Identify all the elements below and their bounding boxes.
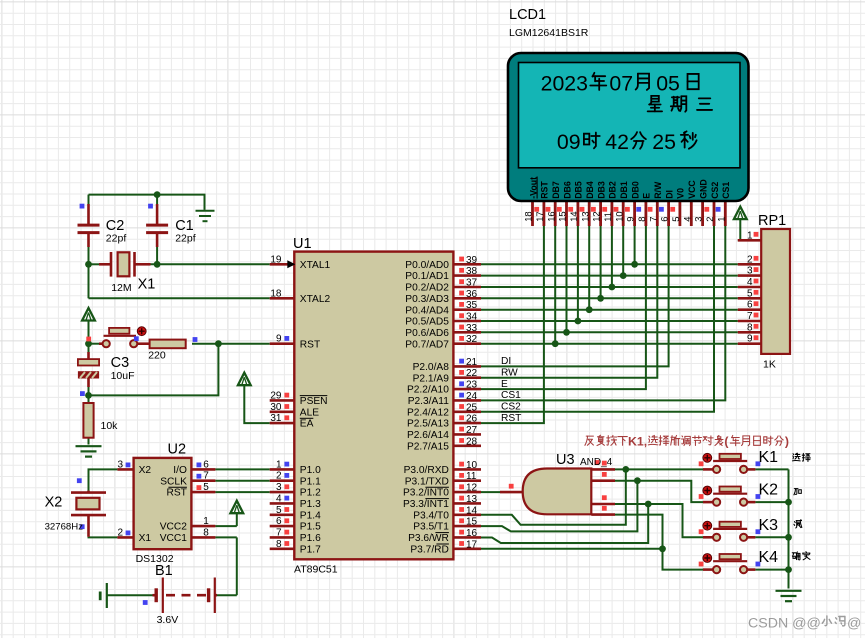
- svg-text:DB7: DB7: [551, 181, 561, 199]
- svg-text:6: 6: [203, 459, 209, 470]
- svg-text:P1.3: P1.3: [300, 499, 321, 510]
- svg-text:U3: U3: [556, 452, 575, 468]
- svg-text:P2.7/A15: P2.7/A15: [407, 441, 449, 452]
- svg-text:K1,: K1,: [628, 434, 647, 448]
- svg-text:17: 17: [534, 211, 545, 221]
- svg-text:7: 7: [276, 527, 282, 538]
- svg-text:9: 9: [747, 334, 753, 345]
- svg-text:25: 25: [652, 130, 676, 154]
- svg-text:2023: 2023: [541, 72, 588, 96]
- svg-text:P1.4: P1.4: [300, 510, 321, 521]
- svg-text:8: 8: [747, 322, 753, 333]
- svg-text:VCC: VCC: [687, 180, 697, 199]
- svg-text:23: 23: [466, 380, 478, 391]
- svg-text:P3.1/TXD: P3.1/TXD: [405, 476, 449, 487]
- svg-text:P2.0/A8: P2.0/A8: [413, 362, 450, 373]
- svg-text:29: 29: [270, 390, 282, 401]
- svg-text:9: 9: [625, 217, 636, 222]
- svg-text:42: 42: [605, 130, 629, 154]
- svg-text:P3.5/T1: P3.5/T1: [413, 522, 449, 533]
- svg-text:8: 8: [276, 539, 282, 550]
- svg-text:DI: DI: [501, 356, 511, 367]
- svg-text:DB3: DB3: [596, 181, 606, 199]
- svg-text:XTAL1: XTAL1: [300, 260, 331, 271]
- svg-text:12: 12: [591, 211, 602, 221]
- svg-text:K3: K3: [759, 517, 779, 534]
- svg-text:P1.7: P1.7: [300, 544, 321, 555]
- svg-text:P3.6/WR: P3.6/WR: [408, 533, 449, 544]
- svg-text:5: 5: [670, 217, 681, 222]
- svg-text:DB5: DB5: [574, 181, 584, 199]
- svg-text:P0.3/AD3: P0.3/AD3: [405, 294, 449, 305]
- svg-text:RST: RST: [300, 339, 320, 350]
- svg-text:22pf: 22pf: [175, 233, 196, 245]
- svg-text:P0.2/AD2: P0.2/AD2: [405, 283, 449, 294]
- svg-text:RW: RW: [501, 368, 518, 379]
- svg-text:RST: RST: [167, 488, 187, 499]
- svg-text:16: 16: [545, 211, 556, 221]
- svg-text:DB4: DB4: [585, 181, 595, 199]
- svg-text:10: 10: [613, 211, 624, 221]
- svg-text:19: 19: [270, 254, 282, 265]
- svg-text:4: 4: [747, 277, 753, 288]
- svg-text:K1: K1: [759, 449, 779, 466]
- svg-text:CS2: CS2: [501, 402, 521, 413]
- svg-text:P3.4/T0: P3.4/T0: [413, 510, 449, 521]
- svg-text:3: 3: [747, 266, 753, 277]
- svg-text:RST: RST: [501, 413, 521, 424]
- svg-text:RP1: RP1: [758, 213, 786, 229]
- svg-text:7: 7: [647, 217, 658, 222]
- svg-text:DI: DI: [664, 190, 674, 199]
- svg-text:18: 18: [523, 211, 534, 221]
- svg-text:21: 21: [466, 357, 478, 368]
- svg-text:1: 1: [715, 217, 726, 222]
- svg-text:X2: X2: [139, 465, 152, 476]
- svg-text:DB0: DB0: [630, 181, 640, 199]
- svg-text:13: 13: [579, 211, 590, 221]
- svg-text:P2.5/A13: P2.5/A13: [407, 419, 449, 430]
- svg-text:P0.0/AD0: P0.0/AD0: [405, 260, 449, 271]
- svg-text:U2: U2: [168, 442, 187, 458]
- svg-text:LGM12641BS1R: LGM12641BS1R: [509, 27, 589, 39]
- svg-text:9: 9: [276, 334, 282, 345]
- svg-text:10k: 10k: [101, 420, 119, 432]
- svg-text:7: 7: [747, 311, 753, 322]
- svg-text:2: 2: [704, 217, 715, 222]
- svg-text:P2.6/A14: P2.6/A14: [407, 430, 449, 441]
- svg-text:15: 15: [557, 211, 568, 221]
- svg-text:10: 10: [466, 460, 478, 471]
- svg-text:34: 34: [466, 312, 478, 323]
- svg-text:35: 35: [466, 300, 478, 311]
- svg-text:ALE: ALE: [300, 407, 319, 418]
- svg-text:25: 25: [466, 402, 478, 413]
- svg-text:36: 36: [466, 289, 478, 300]
- svg-text:1K: 1K: [763, 359, 776, 371]
- svg-text:22pf: 22pf: [106, 233, 127, 245]
- svg-text:16: 16: [466, 528, 478, 539]
- svg-text:P3.2/INT0: P3.2/INT0: [403, 488, 449, 499]
- svg-text:8: 8: [203, 527, 209, 538]
- svg-text:P0.4/AD4: P0.4/AD4: [405, 305, 449, 316]
- svg-text:33: 33: [466, 323, 478, 334]
- svg-text:1: 1: [747, 230, 753, 241]
- svg-text:11: 11: [466, 471, 477, 482]
- svg-text:6: 6: [276, 516, 282, 527]
- svg-text:28: 28: [466, 436, 478, 447]
- svg-text:P2.2/A10: P2.2/A10: [407, 385, 449, 396]
- svg-text:7: 7: [203, 471, 209, 482]
- svg-text:11: 11: [602, 212, 613, 222]
- svg-text:32768Hz: 32768Hz: [45, 522, 84, 533]
- svg-text:12M: 12M: [111, 282, 131, 294]
- svg-text:27: 27: [466, 425, 478, 436]
- svg-text:8: 8: [636, 217, 647, 222]
- svg-text:DB2: DB2: [608, 181, 618, 199]
- svg-text:39: 39: [466, 255, 478, 266]
- svg-text:2: 2: [117, 527, 123, 538]
- svg-text:30: 30: [270, 402, 282, 413]
- svg-text:X2: X2: [45, 495, 63, 511]
- svg-text:): ): [785, 434, 789, 448]
- svg-text:B1: B1: [155, 563, 173, 579]
- svg-text:X1: X1: [138, 277, 156, 293]
- svg-text:18: 18: [270, 288, 282, 299]
- svg-text:12: 12: [466, 483, 478, 494]
- svg-text:P1.6: P1.6: [300, 533, 321, 544]
- svg-text:220: 220: [148, 350, 166, 362]
- svg-text:R/W: R/W: [653, 181, 663, 199]
- svg-text:38: 38: [466, 266, 478, 277]
- svg-text:4: 4: [276, 493, 282, 504]
- svg-text:22: 22: [466, 368, 478, 379]
- svg-text:AND_4: AND_4: [580, 457, 613, 468]
- svg-text:5: 5: [276, 505, 282, 516]
- svg-text:3.6V: 3.6V: [157, 614, 179, 626]
- svg-text:P0.7/AD7: P0.7/AD7: [405, 339, 449, 350]
- svg-text:E: E: [501, 379, 508, 390]
- svg-text:XTAL2: XTAL2: [300, 294, 331, 305]
- svg-text:P3.0/RXD: P3.0/RXD: [404, 465, 449, 476]
- svg-text:@: @: [847, 616, 861, 632]
- svg-text:5: 5: [203, 482, 209, 493]
- svg-text:P1.2: P1.2: [300, 488, 321, 499]
- svg-text:5: 5: [747, 288, 753, 299]
- svg-text:EA: EA: [300, 419, 314, 430]
- svg-text:1: 1: [203, 516, 209, 527]
- svg-text:6: 6: [659, 217, 670, 222]
- svg-text:P0.5/AD5: P0.5/AD5: [405, 317, 449, 328]
- svg-text:07: 07: [609, 72, 633, 96]
- svg-text:SCLK: SCLK: [160, 476, 187, 487]
- svg-text:6: 6: [747, 300, 753, 311]
- svg-text:3: 3: [693, 217, 704, 222]
- svg-text:CSDN @@: CSDN @@: [748, 616, 821, 632]
- svg-text:P2.1/A9: P2.1/A9: [413, 373, 450, 384]
- svg-text:X1: X1: [139, 533, 152, 544]
- svg-text:3: 3: [117, 459, 123, 470]
- svg-text:3: 3: [276, 482, 282, 493]
- svg-text:C3: C3: [111, 355, 130, 371]
- svg-text:U1: U1: [293, 236, 312, 252]
- svg-text:I/O: I/O: [173, 465, 187, 476]
- svg-text:K2: K2: [759, 482, 779, 499]
- svg-text:13: 13: [466, 494, 478, 505]
- svg-text:LCD1: LCD1: [509, 7, 546, 23]
- svg-text:2: 2: [747, 254, 753, 265]
- svg-text:P1.0: P1.0: [300, 465, 321, 476]
- svg-text:VCC2: VCC2: [160, 522, 188, 533]
- svg-text:09: 09: [557, 130, 581, 154]
- svg-text:15: 15: [466, 517, 478, 528]
- svg-text:P0.6/AD6: P0.6/AD6: [405, 328, 449, 339]
- svg-text:17: 17: [466, 539, 478, 550]
- svg-text:4: 4: [681, 217, 692, 222]
- svg-text:P0.1/AD1: P0.1/AD1: [405, 271, 449, 282]
- svg-text:K4: K4: [759, 549, 779, 566]
- svg-text:31: 31: [270, 413, 282, 424]
- svg-text:P1.1: P1.1: [300, 476, 321, 487]
- svg-text:CS1: CS1: [721, 182, 731, 199]
- svg-text:AT89C51: AT89C51: [294, 564, 338, 576]
- svg-text:RST: RST: [540, 181, 550, 199]
- svg-text:E: E: [642, 193, 652, 199]
- svg-text:P3.7/RD: P3.7/RD: [410, 544, 449, 555]
- svg-text:14: 14: [568, 211, 579, 221]
- svg-text:CS2: CS2: [710, 182, 720, 199]
- svg-text:PSEN: PSEN: [300, 396, 328, 407]
- svg-text:2: 2: [276, 471, 282, 482]
- svg-text:DB1: DB1: [619, 181, 629, 199]
- svg-text:GND: GND: [698, 179, 708, 199]
- svg-text:26: 26: [466, 414, 478, 425]
- svg-text:37: 37: [466, 278, 478, 289]
- svg-text:V0: V0: [676, 188, 686, 199]
- svg-text:32: 32: [466, 334, 478, 345]
- svg-text:24: 24: [466, 391, 478, 402]
- svg-text:DB6: DB6: [562, 181, 572, 199]
- svg-text:14: 14: [466, 505, 478, 516]
- svg-text:10uF: 10uF: [111, 370, 135, 382]
- svg-text:P3.3/INT1: P3.3/INT1: [403, 499, 449, 510]
- svg-text:05: 05: [656, 72, 680, 96]
- svg-text:1: 1: [276, 459, 282, 470]
- svg-text:CS1: CS1: [501, 390, 521, 401]
- svg-text:P2.3/A11: P2.3/A11: [408, 396, 449, 407]
- svg-text:P1.5: P1.5: [300, 522, 321, 533]
- svg-text:P2.4/A12: P2.4/A12: [407, 407, 449, 418]
- svg-text:VCC1: VCC1: [160, 533, 188, 544]
